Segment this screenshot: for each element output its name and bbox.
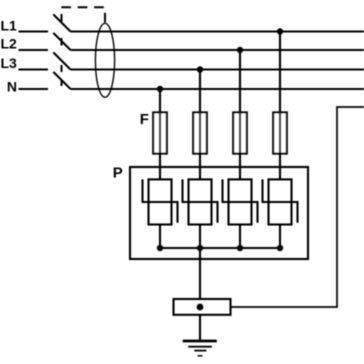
svg-text:F: F <box>140 111 149 128</box>
svg-text:P: P <box>113 165 123 182</box>
svg-text:L1: L1 <box>0 18 17 34</box>
svg-text:L3: L3 <box>0 55 17 71</box>
svg-text:N: N <box>7 79 17 95</box>
svg-text:L2: L2 <box>0 35 17 51</box>
